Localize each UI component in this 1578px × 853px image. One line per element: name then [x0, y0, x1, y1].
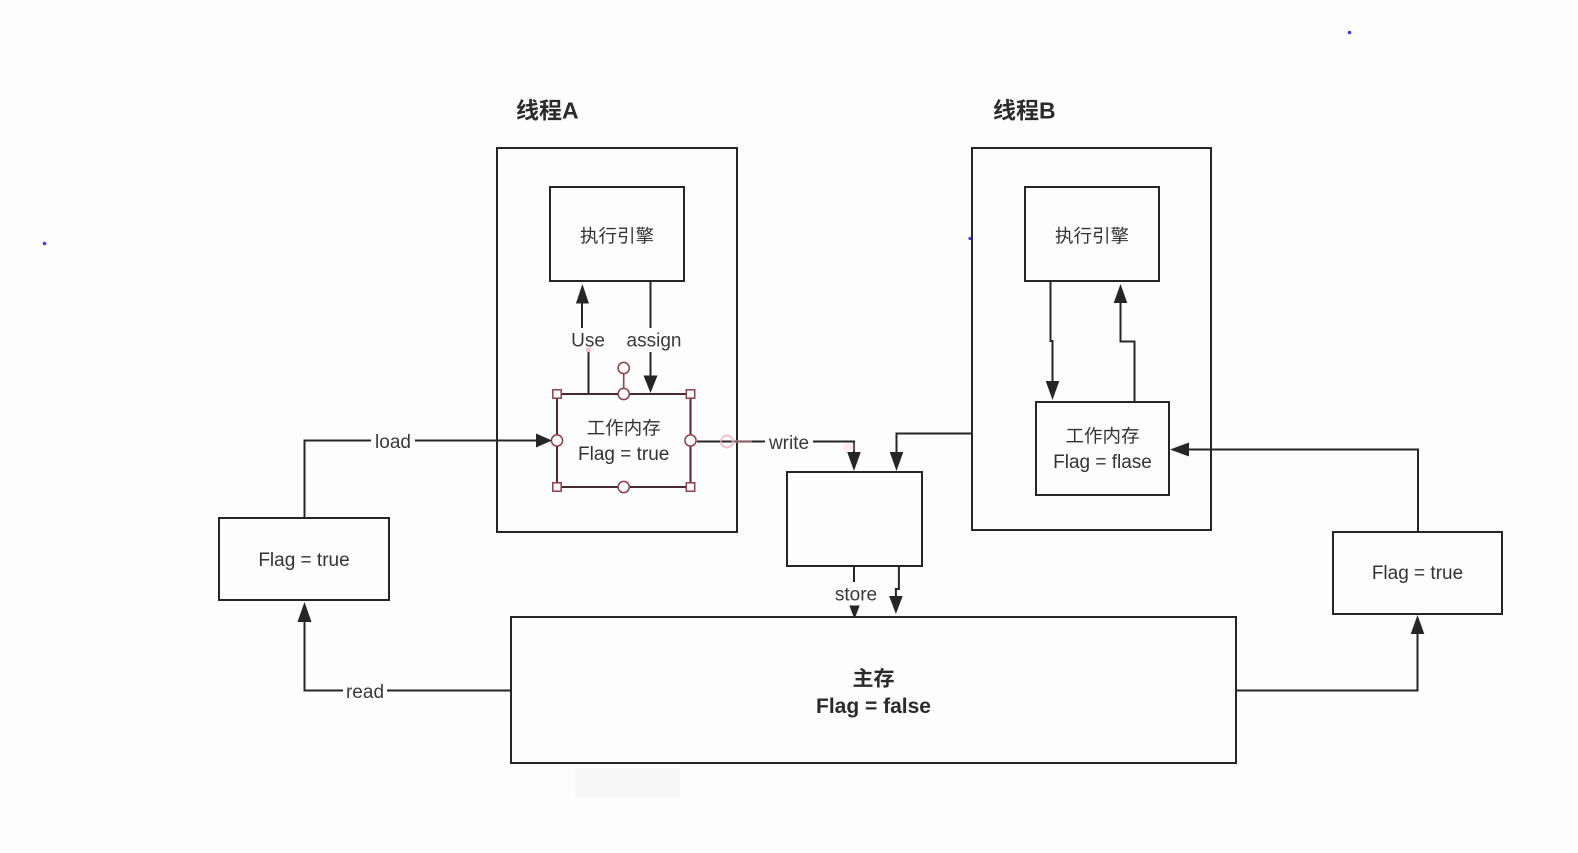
svg-text:Flag = false: Flag = false — [816, 695, 931, 718]
svg-text:assign: assign — [627, 331, 682, 352]
svg-text:Flag = true: Flag = true — [1372, 563, 1463, 584]
arrow working memory B to engine B — [1114, 284, 1135, 402]
box right Flag = true — [1333, 532, 1502, 614]
arrow main memory to right flag box — [1236, 615, 1424, 691]
svg-text:A: A — [562, 98, 579, 124]
box main memory 主存 Flag = false — [511, 617, 1236, 763]
svg-text:Flag = true: Flag = true — [578, 444, 669, 465]
title 线程A — [517, 98, 579, 124]
box execution engine A 执行引擎 — [550, 187, 684, 281]
arrow engine B to working memory B — [1046, 281, 1060, 400]
arrow write (working memory A to buffer box) — [697, 431, 861, 472]
svg-text:load: load — [375, 432, 411, 453]
box thread B container — [972, 148, 1211, 530]
blue speck left — [43, 242, 47, 246]
svg-text:B: B — [1039, 98, 1056, 124]
svg-text:store: store — [835, 585, 877, 606]
box working memory B 工作内存 Flag = flase — [1036, 402, 1169, 495]
arrow assign (engine A to working memory A) — [625, 281, 683, 393]
box thread A container — [497, 148, 737, 532]
arrow load (left flag box to working memory A) — [305, 430, 553, 519]
selection handles on working memory A — [551, 362, 696, 492]
faint smudge below main memory — [575, 768, 680, 798]
svg-text:Flag = flase: Flag = flase — [1053, 452, 1152, 473]
arrow buffer to main memory — [889, 566, 903, 614]
arrow working memory B to buffer box — [890, 434, 1036, 472]
svg-text:read: read — [346, 682, 384, 703]
blue speck thread B edge — [968, 237, 971, 240]
box middle buffer — [787, 472, 922, 566]
box left Flag = true — [219, 518, 389, 600]
arrow read (main memory to left flag box) — [298, 602, 512, 704]
box working memory A 工作内存 Flag = true — [557, 394, 691, 487]
arrow store (buffer to main memory) — [831, 566, 881, 619]
arrow right flag box to working memory B — [1170, 443, 1418, 533]
box execution engine B 执行引擎 — [1025, 187, 1159, 281]
title 线程B — [994, 98, 1056, 124]
svg-text:Flag = true: Flag = true — [258, 550, 349, 571]
arrow Use (working memory A to engine A) — [568, 284, 608, 394]
svg-text:write: write — [768, 433, 809, 454]
blue speck top right — [1348, 31, 1352, 35]
